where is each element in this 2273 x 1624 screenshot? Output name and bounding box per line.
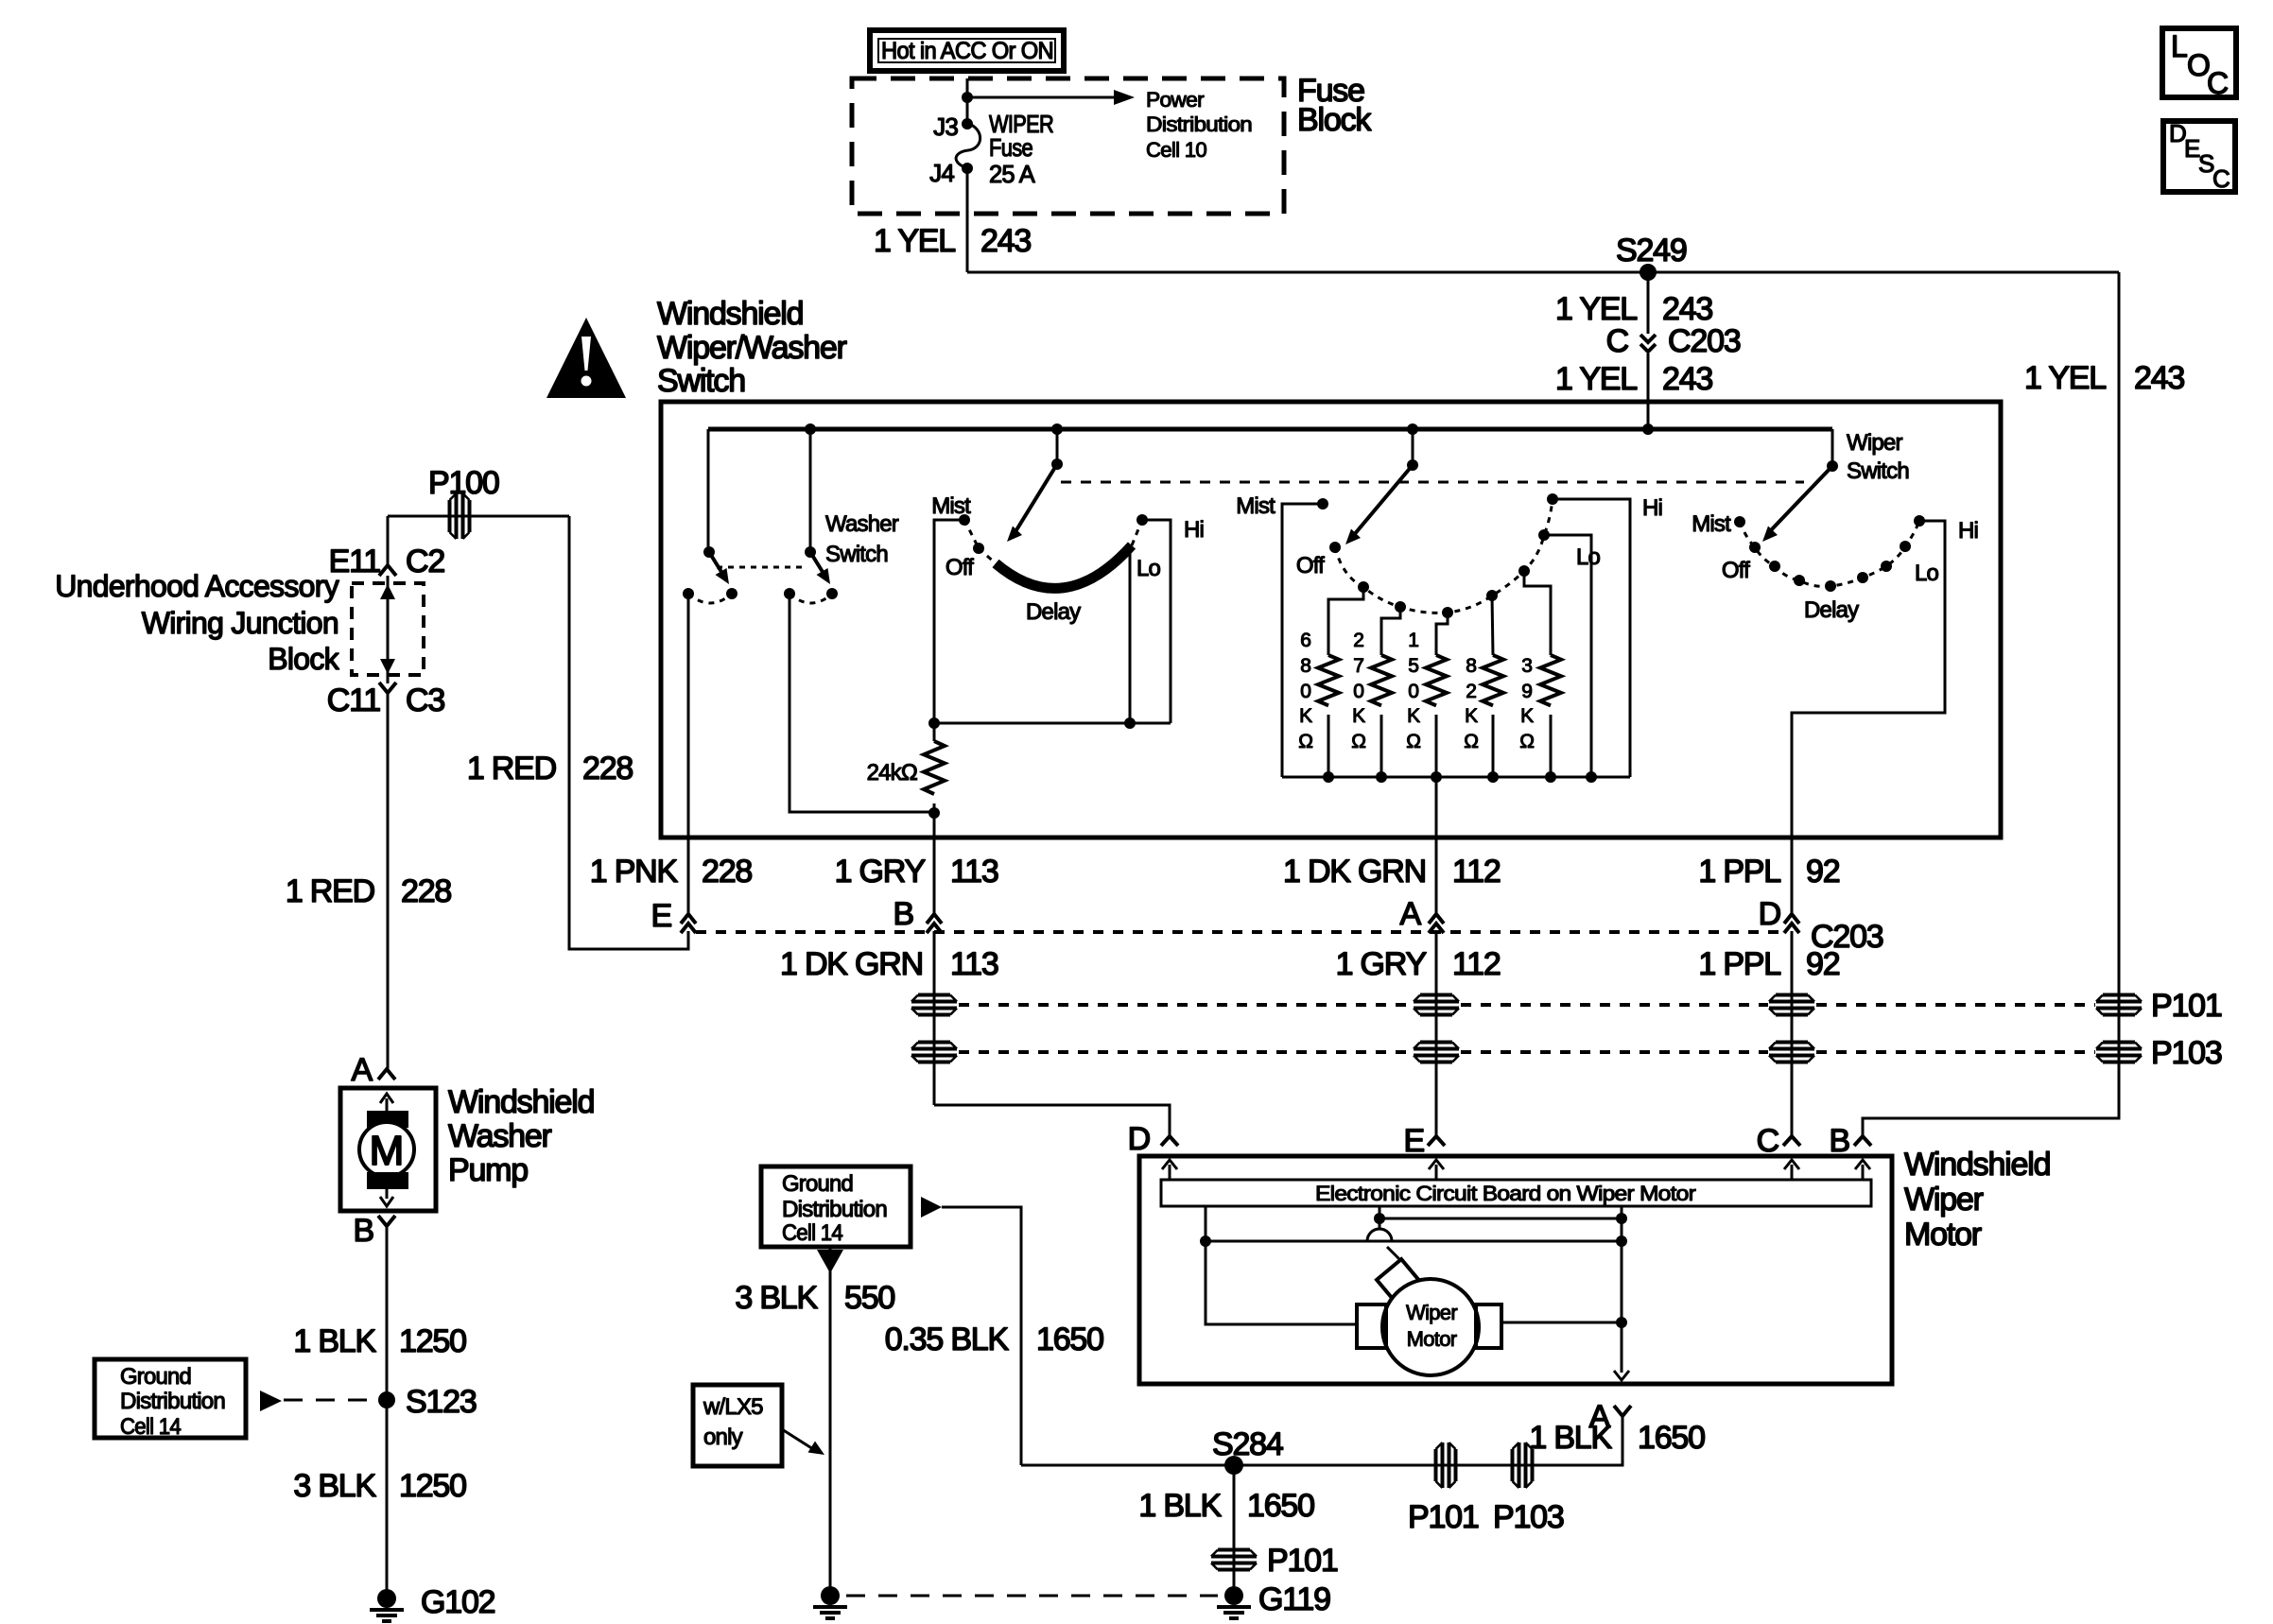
wire: 1 RED 228 from P100 to C203 E: [569, 516, 688, 949]
motor terminal right: [1476, 1304, 1501, 1348]
wire: 113 circuit jog to motor D: [934, 1105, 1170, 1136]
svg-text:Switch: Switch: [825, 542, 888, 567]
fuse block label: [1297, 73, 1372, 138]
entry arrow C: [1784, 1160, 1799, 1180]
wire hop over crossover bus: [1367, 1229, 1392, 1241]
pin J4: [929, 159, 973, 187]
svg-text:25 A: 25 A: [989, 160, 1035, 188]
grommet P103 on ground wire: [1493, 1443, 1564, 1535]
svg-text:1 DK GRN: 1 DK GRN: [780, 946, 923, 982]
svg-text:0: 0: [1408, 681, 1418, 702]
svg-text:G119: G119: [1258, 1581, 1330, 1617]
svg-text:S249: S249: [1616, 233, 1687, 268]
wire: 113 circuit down from C203: [933, 931, 936, 1105]
label: 0.35 BLK 1650: [885, 1322, 1103, 1357]
svg-text:Electronic Circuit Board on Wi: Electronic Circuit Board on Wiper Motor: [1315, 1182, 1695, 1205]
label: 1 DK GRN 112: [1283, 854, 1501, 890]
svg-text:2: 2: [1353, 630, 1363, 651]
svg-text:Mist: Mist: [1692, 511, 1731, 537]
resistor R 150k ohm: [1406, 630, 1447, 777]
washer switch pole 1: [703, 429, 715, 558]
svg-text:only: only: [703, 1425, 743, 1450]
resistor R 270k ohm: [1351, 630, 1392, 777]
tap node T4 (sw2): [1486, 590, 1498, 601]
svg-text:Hi: Hi: [1184, 517, 1204, 543]
ground distribution cell 14 box (middle): [761, 1166, 911, 1247]
contact Mist (sw3): [1734, 516, 1745, 527]
wire: board drop to brush: [1379, 1206, 1381, 1229]
svg-text:24kΩ: 24kΩ: [867, 760, 917, 786]
warning triangle: [547, 318, 626, 398]
wire: T3 to resistor 150k: [1436, 613, 1448, 655]
entry arrow E: [1429, 1160, 1444, 1180]
grommet P101 on ground wire: [1408, 1443, 1479, 1535]
wire: 0.35 BLK 1650 to S284: [942, 1207, 1021, 1465]
svg-text:1 YEL: 1 YEL: [2024, 360, 2106, 396]
svg-text:113: 113: [950, 946, 998, 982]
wire: right side 1 YEL 243 feed down to wiper motor B: [1863, 272, 2119, 1136]
wire: washer contact 2 to 24k node: [789, 594, 932, 812]
hot in ACC or ON feed box: [870, 30, 1064, 71]
pin J3: [933, 112, 973, 141]
svg-text:D: D: [1128, 1121, 1150, 1157]
wire: gang line (dashed) linking switch arms: [1061, 481, 1804, 484]
svg-text:E: E: [651, 898, 672, 934]
wire: board drop left: [1206, 1206, 1357, 1324]
wire: 3 BLK 550 down to ground: [829, 1246, 832, 1596]
wiper switch section 2: arm with arrow: [1345, 465, 1413, 544]
svg-text:1 BLK: 1 BLK: [1529, 1420, 1612, 1456]
wire: pump ground 1 BLK 1250: [386, 1226, 389, 1598]
svg-text:S123: S123: [406, 1384, 477, 1420]
label: windshield washer pump: [448, 1084, 594, 1188]
label: 1 YEL 243 above C203: [1555, 291, 1712, 327]
label: 1 YEL 243 below C203: [1555, 361, 1712, 397]
wire: Hi contact to sub-bus (sw1): [1142, 520, 1171, 723]
svg-text:Underhood Accessory: Underhood Accessory: [55, 569, 338, 603]
svg-text:112: 112: [1452, 854, 1501, 890]
svg-text:C: C: [2207, 66, 2228, 100]
resistor R 680k ohm: [1298, 630, 1339, 777]
svg-text:Wiper: Wiper: [1847, 430, 1902, 456]
wire: arrow to power distribution cell 10: [967, 90, 1135, 105]
wire: Mist to sub-bus (sw1): [934, 520, 964, 723]
node: bus to wiper switch arm 2: [1407, 423, 1418, 435]
svg-text:B: B: [894, 896, 913, 932]
svg-text:Wiper: Wiper: [1406, 1301, 1457, 1324]
wire: T5 to resistor 39k: [1524, 571, 1551, 655]
washer contact 1a: [683, 588, 694, 599]
svg-text:Lo: Lo: [1136, 556, 1161, 581]
wire: internal supply bus: [708, 427, 1832, 432]
svg-text:w/LX5: w/LX5: [703, 1394, 763, 1420]
svg-text:1 PNK: 1 PNK: [590, 854, 679, 890]
svg-text:Ω: Ω: [1351, 731, 1365, 752]
washer switch arm 2: [810, 552, 830, 584]
washer contact 1b: [726, 588, 737, 599]
dashed: Off to delay arc (sw1): [979, 548, 996, 563]
wire: feed into fuse block: [966, 78, 969, 124]
wiper motor M: [1382, 1279, 1479, 1375]
svg-text:228: 228: [582, 751, 633, 786]
wire: sw2 output down (1 DK GRN 112): [1435, 777, 1438, 914]
pass-through P101 (dashed row): [959, 988, 2222, 1024]
wire: motor ground 1 BLK 1650: [1021, 1416, 1622, 1465]
svg-text:P101: P101: [1267, 1543, 1338, 1579]
connector pin C (motor): [1757, 1123, 1800, 1159]
wire: Mist to resistor bus (sw2): [1282, 504, 1323, 777]
svg-text:K: K: [1465, 705, 1478, 727]
svg-text:Cell 14: Cell 14: [782, 1220, 842, 1246]
label: underhood accessory wiring junction block: [55, 569, 339, 676]
svg-text:1 RED: 1 RED: [467, 751, 556, 786]
DESC box: [2163, 119, 2235, 193]
wire: main 1 YEL 243 feed across top: [967, 271, 2119, 274]
wiper switch label: [1847, 430, 1909, 484]
svg-text:228: 228: [401, 873, 451, 909]
arrow from middle ground box: [921, 1197, 942, 1218]
svg-text:P101: P101: [2151, 988, 2222, 1024]
node on brush drop: [1374, 1213, 1385, 1224]
svg-text:Switch: Switch: [1847, 458, 1909, 484]
grommet P100: [450, 493, 470, 539]
label: 1 YEL 243 right side: [2024, 360, 2184, 396]
ground G119: [1217, 1581, 1330, 1618]
svg-text:1 GRY: 1 GRY: [835, 854, 926, 890]
fuse block (dashed box): [852, 78, 1284, 214]
arrowhead into 3 BLK 550 wire: [817, 1250, 843, 1273]
node S284: [1212, 1426, 1283, 1475]
washer switch pole 2: [805, 429, 816, 558]
washer contact 2b: [826, 588, 838, 599]
svg-text:K: K: [1520, 705, 1534, 727]
svg-text:1 PPL: 1 PPL: [1698, 946, 1780, 982]
resistor 24k ohm: [924, 723, 945, 813]
svg-text:9: 9: [1521, 681, 1532, 702]
label: WIPER Fuse 25 A: [989, 110, 1053, 188]
wire through junction block with arrows: [380, 576, 395, 683]
label: 1 GRY 112: [1336, 946, 1501, 982]
node: bus fed from C203: [1642, 423, 1654, 435]
grommet P101 on 113 wire: [911, 995, 957, 1015]
wire: S284 down to G119: [1233, 1465, 1236, 1596]
svg-text:L: L: [2171, 29, 2187, 63]
connector C203 pin E: [651, 898, 696, 934]
node: bus R2: [1376, 771, 1387, 783]
connector C11 / C3: [327, 682, 445, 718]
svg-text:C3: C3: [406, 682, 444, 718]
svg-text:Cell 10: Cell 10: [1146, 138, 1206, 162]
svg-text:Distribution: Distribution: [1146, 112, 1252, 136]
wire: Hi to resistor bus (sw2): [1553, 499, 1630, 777]
label: 1 RED 228 (right): [467, 751, 633, 786]
wire: 112 circuit down from C203: [1435, 931, 1438, 1136]
contact Hi (sw3): [1914, 515, 1925, 527]
svg-text:P101: P101: [1408, 1499, 1479, 1535]
wire: fuse output down: [966, 168, 969, 272]
grommet P101 on 112 wire: [1414, 995, 1459, 1015]
svg-text:3 BLK: 3 BLK: [293, 1468, 376, 1504]
wiper switch section 1: arm feed: [1051, 429, 1063, 470]
label: 3 BLK 1250: [293, 1468, 466, 1504]
node on left drop: [1200, 1235, 1211, 1247]
delay resistive strip (thick arc, sw1): [996, 545, 1132, 588]
svg-text:8: 8: [1300, 655, 1310, 677]
entry arrow B: [1855, 1160, 1870, 1180]
tap node T3 (sw2): [1442, 607, 1453, 618]
svg-text:1 GRY: 1 GRY: [1336, 946, 1427, 982]
svg-text:0.35 BLK: 0.35 BLK: [885, 1322, 1010, 1357]
wire: resistor ladder bottom bus (sw2): [1282, 776, 1630, 779]
svg-text:1 DK GRN: 1 DK GRN: [1283, 854, 1426, 890]
ground G102b for 3 BLK 550: [813, 1586, 847, 1618]
delay position node c (sw3): [1825, 580, 1836, 592]
svg-text:1650: 1650: [1247, 1488, 1314, 1524]
svg-text:E: E: [1404, 1123, 1425, 1159]
entry arrow D: [1162, 1160, 1177, 1180]
svg-text:Washer: Washer: [825, 511, 899, 537]
svg-text:Lo: Lo: [1915, 561, 1939, 586]
label: 1 BLK 1650 (motor): [1529, 1420, 1705, 1456]
connector pin D (motor): [1128, 1121, 1178, 1157]
delay position node e (sw3): [1881, 561, 1892, 572]
wire: T1 to resistor 680k: [1328, 587, 1363, 655]
wiper switch section 1: arm with arrow: [1007, 464, 1057, 542]
svg-text:Motor: Motor: [1407, 1327, 1457, 1351]
svg-text:Fuse: Fuse: [989, 133, 1032, 162]
svg-text:3: 3: [1521, 655, 1532, 677]
label: 3 BLK 550: [735, 1280, 894, 1316]
tap node T1 (sw2): [1358, 581, 1369, 593]
svg-text:243: 243: [2134, 360, 2184, 396]
svg-text:1250: 1250: [399, 1323, 466, 1359]
motor terminal left: [1357, 1304, 1386, 1348]
tap node T2 (sw2): [1395, 601, 1406, 613]
wire: upper link bus: [1379, 1218, 1622, 1220]
svg-text:Windshield: Windshield: [1904, 1147, 2050, 1183]
grommet P101 on 243 wire: [2096, 995, 2142, 1015]
wire: sw3 Hi output to D (1 PPL 92): [1792, 521, 1945, 914]
windshield washer pump box: [340, 1088, 436, 1211]
pump motor M symbol: [359, 1094, 414, 1206]
label: 1 PNK 228: [590, 854, 753, 890]
svg-text:Hi: Hi: [1958, 518, 1978, 544]
svg-text:92: 92: [1806, 854, 1840, 890]
svg-text:P103: P103: [1493, 1499, 1564, 1535]
svg-text:A: A: [1400, 896, 1422, 932]
wire: washer output (1 PNK) down: [687, 594, 690, 914]
wire: sw1 output down (1 GRY 113): [933, 813, 936, 914]
svg-text:Windshield: Windshield: [657, 296, 803, 332]
svg-text:Delay: Delay: [1026, 599, 1081, 625]
washer contact arc 2 (dashed): [789, 594, 832, 603]
svg-text:243: 243: [1662, 291, 1712, 327]
svg-text:550: 550: [844, 1280, 894, 1316]
connector E11 / C2: [329, 544, 445, 579]
svg-text:0: 0: [1300, 681, 1310, 702]
node: branch to power distribution: [962, 92, 973, 103]
connector pin A (pump): [352, 1052, 395, 1088]
grommet P101 below S284: [1211, 1543, 1338, 1579]
node: sub-bus left (sw1): [928, 717, 940, 729]
svg-text:Hot in ACC Or ON: Hot in ACC Or ON: [881, 38, 1053, 64]
resistor R 39k ohm: [1519, 655, 1561, 777]
svg-text:1250: 1250: [399, 1468, 466, 1504]
washer switch label: [825, 511, 899, 567]
dashed: arc end to Hi contact (sw1): [1132, 520, 1142, 545]
svg-text:J4: J4: [929, 159, 954, 187]
svg-text:8: 8: [1466, 655, 1476, 677]
svg-text:Off: Off: [946, 555, 974, 580]
svg-text:Washer: Washer: [448, 1118, 552, 1154]
delay position node a (sw3): [1769, 561, 1780, 572]
connector pin B (motor): [1830, 1123, 1871, 1159]
node S123: [378, 1384, 477, 1420]
wire: S249 down to C203: [1647, 272, 1650, 334]
svg-text:7: 7: [1353, 655, 1363, 677]
contact Mist (sw2): [1317, 498, 1328, 510]
ground distribution cell 14 box (left): [95, 1359, 246, 1440]
delay position node b (sw3): [1794, 575, 1805, 586]
wiper switch section 3: arm feed: [1827, 429, 1838, 472]
wire: hop to angled brush terminal: [1387, 1247, 1400, 1260]
svg-text:1 BLK: 1 BLK: [293, 1323, 376, 1359]
svg-text:1650: 1650: [1036, 1322, 1103, 1357]
svg-text:C11: C11: [327, 682, 381, 718]
svg-text:1 YEL: 1 YEL: [1555, 361, 1637, 397]
svg-text:K: K: [1407, 705, 1420, 727]
svg-text:C: C: [1606, 323, 1629, 359]
windshield wiper motor box: [1139, 1156, 1892, 1384]
svg-text:Ω: Ω: [1519, 731, 1534, 752]
svg-text:Windshield: Windshield: [448, 1084, 594, 1120]
svg-text:1 YEL: 1 YEL: [1555, 291, 1637, 327]
wire: Lo to resistor bus (sw2): [1544, 535, 1591, 777]
svg-text:2: 2: [1466, 681, 1476, 702]
washer contact arc 1 (dashed): [688, 594, 732, 603]
label: 1 DK GRN 113: [780, 946, 998, 982]
washer switch arm 1: [709, 552, 729, 584]
svg-text:Distribution: Distribution: [120, 1389, 225, 1414]
svg-text:Motor: Motor: [1904, 1217, 1982, 1253]
svg-text:Block: Block: [268, 642, 339, 676]
node: bus Lo tie: [1586, 771, 1597, 783]
resistor R 82k ohm: [1464, 655, 1503, 777]
svg-text:C203: C203: [1668, 323, 1741, 359]
LOC box: [2162, 28, 2236, 100]
label: 1 RED 228 (left): [286, 873, 452, 909]
svg-text:Ω: Ω: [1298, 731, 1312, 752]
connector C203 pin B: [894, 896, 942, 933]
svg-text:Wiring Junction: Wiring Junction: [142, 606, 338, 640]
label: 1 BLK 1250: [293, 1323, 466, 1359]
contact Off (sw1): [973, 543, 984, 554]
contact Mist (sw1): [959, 514, 970, 526]
connector pin A (motor): [1589, 1399, 1631, 1435]
contact Lo (sw3): [1900, 541, 1911, 552]
contact Off (sw3): [1749, 542, 1761, 553]
grommet P101 on 92 wire: [1769, 995, 1814, 1015]
wiper switch section 2: arm feed: [1407, 429, 1418, 471]
svg-text:Power: Power: [1146, 88, 1204, 112]
svg-text:113: 113: [950, 854, 998, 890]
svg-text:Switch: Switch: [657, 363, 745, 399]
contact Off (sw2): [1329, 542, 1341, 553]
dashed delay arc (sw2): [1335, 499, 1553, 613]
node S249: [1616, 233, 1687, 281]
svg-text:K: K: [1299, 705, 1312, 727]
svg-text:92: 92: [1806, 946, 1840, 982]
label: 1 PPL 92: [1698, 854, 1839, 890]
wire: down to junction block: [387, 516, 390, 565]
svg-text:G102: G102: [421, 1584, 495, 1620]
svg-text:K: K: [1352, 705, 1365, 727]
node: bus R1: [1323, 771, 1334, 783]
svg-text:112: 112: [1452, 946, 1501, 982]
node: bus R3 / output: [1431, 771, 1442, 783]
wire: T4 to resistor 82k: [1492, 596, 1493, 655]
arrow from ground distribution box: [260, 1391, 282, 1411]
svg-text:Distribution: Distribution: [782, 1197, 887, 1222]
svg-text:M: M: [370, 1128, 405, 1174]
dashed delay arc (sw3): [1740, 521, 1919, 586]
grommet P103 on 243 wire: [2096, 1043, 2142, 1063]
wire: T2 to resistor 270k: [1381, 607, 1400, 655]
ground G102: [370, 1584, 495, 1621]
connector C203 pin D: [1759, 896, 1883, 955]
svg-text:0: 0: [1353, 681, 1363, 702]
node: bus to washer switch pole 2: [805, 423, 816, 435]
svg-text:5: 5: [1408, 655, 1418, 677]
svg-text:243: 243: [1662, 361, 1712, 397]
svg-text:J3: J3: [933, 112, 958, 141]
svg-text:1: 1: [1408, 630, 1418, 651]
svg-text:Wiper/Washer: Wiper/Washer: [657, 330, 847, 366]
label: power distribution cell 10: [1146, 88, 1252, 162]
grommet P103 on 92 wire: [1769, 1043, 1814, 1063]
wire: washer gang dashed: [717, 566, 806, 569]
title: windshield wiper/washer switch: [657, 296, 847, 399]
wiper switch section 3: arm with arrow: [1762, 466, 1832, 542]
label: 1 YEL 243: [874, 223, 1031, 259]
svg-text:C2: C2: [406, 544, 444, 579]
svg-text:B: B: [1830, 1123, 1849, 1159]
svg-text:3 BLK: 3 BLK: [735, 1280, 818, 1316]
wire: C203 body (dashed): [696, 930, 1781, 934]
label: 1 PPL 92 lower: [1698, 946, 1839, 982]
svg-text:1 YEL: 1 YEL: [874, 223, 955, 259]
wire: sw1 sub-bus: [934, 722, 1171, 725]
delay position node d (sw3): [1857, 572, 1868, 583]
svg-text:1 RED: 1 RED: [286, 873, 374, 909]
svg-text:Block: Block: [1297, 102, 1372, 138]
label: 1 GRY 113: [835, 854, 998, 890]
svg-text:Hi: Hi: [1642, 495, 1662, 521]
svg-text:S284: S284: [1212, 1426, 1283, 1462]
switch assembly box SW: [661, 402, 2001, 838]
wire: crossover bus: [1206, 1240, 1622, 1243]
svg-text:Ω: Ω: [1464, 731, 1478, 752]
svg-text:Lo: Lo: [1576, 544, 1601, 570]
fuse F: WIPER fuse 25A: [956, 123, 980, 168]
svg-text:1650: 1650: [1638, 1420, 1705, 1456]
contact Hi (sw2): [1547, 493, 1558, 505]
w/LX5 only box: [693, 1385, 782, 1466]
connector pin E (motor): [1404, 1123, 1445, 1159]
grommet P103 on 112 wire: [1414, 1043, 1459, 1063]
svg-text:243: 243: [980, 223, 1031, 259]
svg-text:C: C: [2212, 164, 2230, 193]
